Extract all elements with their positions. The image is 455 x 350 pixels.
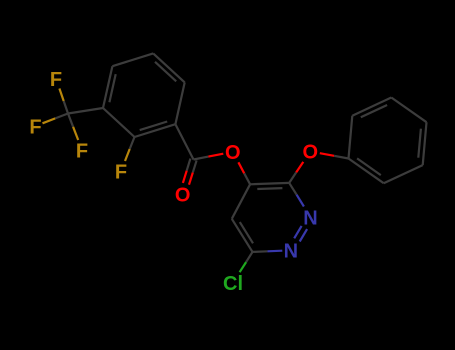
bond O-C4 ester to pyridazine: [238, 162, 250, 184]
wire phenyl edge C4'=C5' (double): [418, 122, 426, 165]
wire pyridazine edge C6=C5 (double): [232, 219, 253, 252]
bond O-C1' phenoxy to phenyl: [320, 153, 349, 158]
wire phenyl edge C1'-C2': [349, 116, 353, 159]
bond C6-Cl (chloro): [240, 252, 253, 272]
wire benzene edge C3-C2: [103, 108, 135, 137]
bond C3-O phenoxy: [289, 162, 303, 183]
bond C=O carbonyl double: [183, 159, 197, 185]
bond CF3C-F1 (C-F): [59, 89, 68, 114]
svg-text:O: O: [225, 142, 241, 164]
svg-text:O: O: [175, 185, 191, 207]
wire pyridazine edge N2=N1 (double): [294, 226, 307, 242]
svg-text:N: N: [303, 207, 317, 229]
svg-text:F: F: [76, 140, 88, 162]
wire benzene edge C4=C3 (double): [103, 66, 116, 108]
bond CF3C-F2 (C-F): [43, 114, 69, 124]
wire phenyl edge C2'=C3' (double): [352, 98, 391, 118]
svg-text:F: F: [29, 116, 41, 138]
wire pyridazine edge C4=C3 (double): [250, 183, 289, 189]
wire benzene edge C1-C6: [175, 82, 184, 124]
wire pyridazine edge N1-C6: [253, 251, 283, 252]
svg-text:F: F: [115, 161, 127, 183]
wire benzene edge C6=C5 (double): [153, 53, 185, 82]
wire benzene edge C5-C4: [112, 53, 153, 66]
svg-text:N: N: [284, 241, 298, 263]
bond C2-F4 (aryl fluorine): [125, 137, 135, 161]
svg-text:O: O: [303, 142, 319, 164]
wire pyridazine edge C3-N2: [289, 183, 304, 207]
bond C1-C(carbonyl): [175, 124, 193, 159]
svg-text:F: F: [50, 69, 62, 91]
bond C-O ester single: [194, 154, 224, 160]
bond CF3C-C3 (CF3 to benzene ring): [68, 108, 103, 114]
wire phenyl edge C5'-C6': [384, 165, 423, 183]
svg-text:Cl: Cl: [223, 273, 243, 295]
wire pyridazine edge C5-C4: [232, 184, 250, 219]
wire phenyl edge C3'-C4': [391, 98, 426, 123]
wire phenyl edge C6'=C1' (double): [349, 158, 384, 183]
wire benzene edge C2=C1 (double): [135, 122, 176, 138]
bond CF3C-F3 (C-F): [68, 114, 78, 141]
